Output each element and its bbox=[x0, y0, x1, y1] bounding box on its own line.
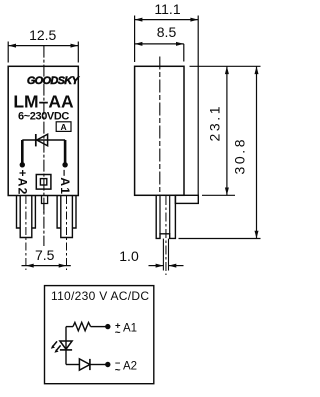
svg-text:–A1: –A1 bbox=[58, 170, 72, 196]
dimension 30.8 arrow bottom bbox=[255, 231, 259, 239]
dimension 1.0 line right bbox=[169, 265, 184, 267]
LED light arrow 1 bbox=[52, 341, 57, 347]
dimension 1.0 line left bbox=[149, 265, 164, 267]
svg-text:6~230VDC: 6~230VDC bbox=[18, 111, 69, 123]
resistor R bbox=[73, 322, 91, 330]
pin side edge right extension bbox=[168, 239, 170, 271]
svg-text:~: ~ bbox=[115, 365, 121, 376]
diode D1 cathode bar bbox=[35, 134, 37, 146]
label +/~ A1 bbox=[115, 321, 137, 339]
LED cathode bar bbox=[60, 349, 72, 351]
dimension 1.0 arrow right bbox=[169, 264, 177, 268]
pin bottom extension line bbox=[179, 238, 261, 240]
svg-text:1.0: 1.0 bbox=[119, 248, 139, 264]
side view body centerline bbox=[159, 57, 161, 197]
LED triangle bbox=[60, 341, 72, 349]
dimension 23.1 arrow top bbox=[225, 66, 229, 74]
dimension 12.5 line bbox=[8, 45, 78, 47]
dimension 8.5 arrow right bbox=[176, 42, 184, 46]
wire to A2 dot bbox=[90, 364, 106, 366]
dimension 23.1 arrow bottom bbox=[225, 188, 229, 196]
label -/~ A2 bbox=[115, 358, 137, 376]
dimension 8.5 extension right bbox=[183, 44, 185, 62]
connector square outer bbox=[36, 175, 51, 190]
wire top branch bbox=[66, 326, 73, 328]
wire left branch bbox=[65, 327, 67, 365]
dimension 23.1 line bbox=[226, 66, 228, 195]
svg-text:A: A bbox=[61, 122, 67, 132]
right pin outline bbox=[57, 196, 76, 229]
left pin centerline bbox=[25, 196, 27, 270]
dimension 11.1 extension right bbox=[197, 16, 199, 196]
pin side edge left extension bbox=[162, 239, 164, 271]
dimension 12.5 extension line right bbox=[77, 42, 79, 63]
schematic box bbox=[45, 286, 154, 384]
terminal dot A1 bbox=[105, 324, 110, 329]
svg-text:110/230 V AC/DC: 110/230 V AC/DC bbox=[51, 289, 149, 303]
svg-text:~: ~ bbox=[115, 327, 121, 338]
wire to terminal A1 bbox=[64, 140, 67, 163]
dimension 11.1 line bbox=[135, 19, 199, 21]
right pin inner edges bbox=[61, 196, 73, 238]
mounting flange bbox=[175, 195, 198, 203]
dimension 12.5 extension line left bbox=[7, 42, 9, 63]
top extension line bbox=[190, 65, 261, 67]
front view centerline bbox=[43, 46, 45, 246]
diode D1 triangle bbox=[37, 134, 48, 146]
svg-text:7.5: 7.5 bbox=[35, 247, 55, 263]
dimension 7.5 arrow left bbox=[26, 264, 34, 268]
dimension 12.5 arrow left bbox=[8, 44, 16, 48]
left pin inner edges bbox=[20, 196, 32, 238]
svg-text:30.8: 30.8 bbox=[232, 137, 248, 175]
pin holder outline bbox=[156, 195, 175, 238]
LED light arrow 2 bbox=[56, 345, 61, 351]
dimension 8.5 line bbox=[135, 43, 184, 45]
svg-text:LM–AA: LM–AA bbox=[13, 92, 74, 112]
body bottom extension line bbox=[202, 194, 235, 196]
svg-text:12.5: 12.5 bbox=[29, 27, 56, 43]
terminal dot A2 bbox=[105, 362, 110, 367]
dimension 7.5 arrow right bbox=[59, 264, 67, 268]
svg-text:A2: A2 bbox=[123, 361, 137, 373]
diode D triangle bbox=[79, 359, 90, 370]
dimension 30.8 arrow top bbox=[255, 66, 259, 74]
diode D1 wire bbox=[22, 139, 65, 141]
connector square inner bbox=[40, 179, 46, 185]
dimension 7.5 line bbox=[22, 265, 71, 267]
svg-text:8.5: 8.5 bbox=[157, 24, 177, 40]
center stub bbox=[42, 196, 48, 204]
dimension 8.5 arrow left bbox=[135, 42, 143, 46]
side view pin centerline bbox=[165, 196, 167, 275]
svg-text:A1: A1 bbox=[123, 323, 137, 335]
dimension 12.5 arrow right bbox=[71, 44, 79, 48]
pin holder channel left bbox=[159, 195, 161, 234]
module front body bbox=[8, 66, 78, 195]
approval box A bbox=[56, 122, 71, 132]
terminal dot A2 bbox=[20, 162, 25, 167]
wire to terminal A2 bbox=[21, 140, 24, 163]
center stub line bbox=[43, 204, 45, 214]
dimension 30.8 line bbox=[256, 66, 258, 238]
svg-text:23.1: 23.1 bbox=[207, 104, 223, 142]
dimension 1.0 arrow left bbox=[156, 264, 164, 268]
diode D cathode bar bbox=[89, 359, 91, 370]
module side body bbox=[135, 66, 184, 195]
right pin centerline bbox=[66, 196, 68, 270]
dimension 11.1 arrow left bbox=[135, 18, 143, 22]
wire bottom branch bbox=[66, 364, 79, 366]
svg-text:11.1: 11.1 bbox=[154, 1, 180, 17]
svg-text:GOODSKY: GOODSKY bbox=[27, 75, 81, 87]
svg-text:+A2: +A2 bbox=[15, 170, 29, 196]
dimension 11.1 arrow right bbox=[190, 18, 198, 22]
left pin outline bbox=[17, 196, 36, 229]
terminal dot A1 bbox=[62, 162, 67, 167]
pin holder channel right bbox=[169, 195, 171, 234]
wire to A1 dot bbox=[91, 326, 106, 328]
dimension 11.1 extension left bbox=[134, 16, 136, 63]
